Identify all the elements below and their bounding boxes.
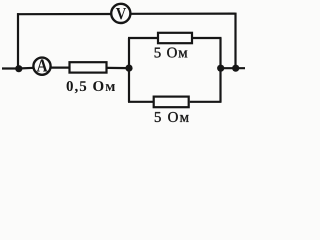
resistor R2 5 Ом box (top)	[158, 33, 192, 43]
wire: bottom branch left lead	[128, 101, 154, 103]
wire: left terminal stub	[2, 67, 19, 69]
wire: right vertical of parallel section	[219, 38, 221, 102]
ammeter A1 circle	[33, 58, 50, 75]
wire: resistor R1 to middle junction	[108, 67, 130, 69]
wire: top branch left lead	[128, 37, 158, 39]
value label 0,5 Ом	[67, 81, 115, 93]
value label 5 Ом (top)	[155, 48, 188, 58]
wire: left vertical of parallel section	[128, 38, 130, 102]
resistor R1 0,5 Ом box	[70, 62, 107, 72]
node: middle junction dot	[125, 65, 132, 72]
value label 5 Ом (bottom)	[155, 112, 189, 122]
wire: main branch, junction to ammeter	[18, 67, 35, 70]
wire: top branch right lead	[193, 37, 222, 39]
node: right main junction dot	[232, 65, 239, 72]
wire: ammeter to resistor R1	[50, 66, 69, 68]
voltmeter V1 letter V	[116, 8, 126, 19]
ammeter A1 letter A	[37, 59, 48, 71]
wire: top horizontal, corner to voltmeter	[17, 13, 111, 15]
node: left junction dot	[15, 65, 22, 72]
wire: bottom branch right lead	[190, 101, 222, 103]
wire: top horizontal, voltmeter to right corner	[130, 13, 235, 15]
wire: left vertical riser	[17, 13, 19, 69]
wire: right connector and terminal stub	[221, 67, 246, 69]
wire: right vertical drop	[234, 13, 236, 69]
voltmeter V1 circle	[111, 4, 130, 23]
resistor R3 5 Ом box (bottom)	[154, 97, 189, 108]
node: parallel-section right junction dot	[217, 65, 224, 72]
